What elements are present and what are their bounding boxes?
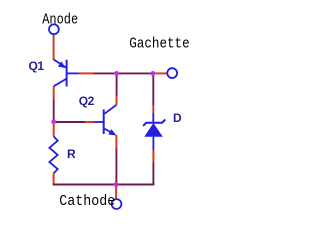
- svg-text:R: R: [67, 147, 76, 161]
- svg-text:Q2: Q2: [79, 94, 95, 108]
- svg-text:D: D: [173, 111, 182, 125]
- svg-text:Cathode: Cathode: [59, 193, 115, 210]
- svg-text:Q1: Q1: [29, 59, 45, 73]
- svg-text:Gachette: Gachette: [129, 36, 190, 53]
- svg-text:Anode: Anode: [42, 12, 78, 29]
